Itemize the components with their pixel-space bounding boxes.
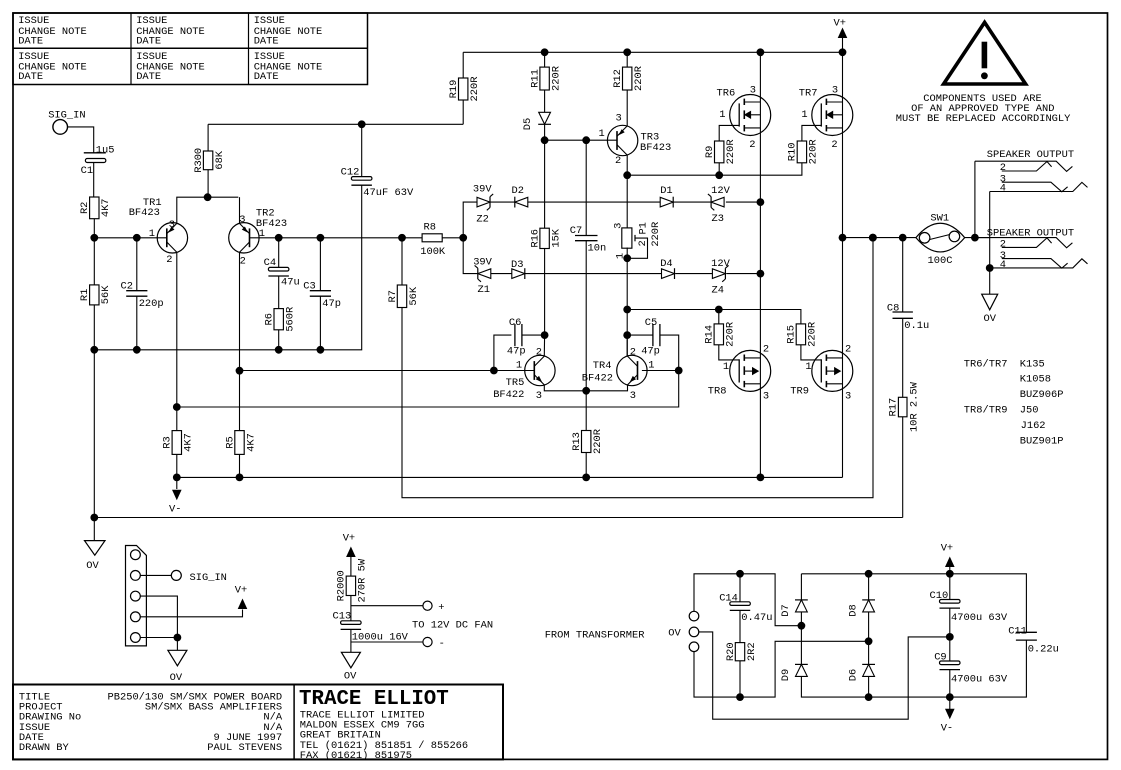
transistor TR5 — [493, 346, 555, 402]
potentiometer P1 — [612, 222, 662, 259]
svg-text:2: 2 — [1000, 162, 1006, 174]
wire — [842, 52, 844, 477]
junction — [236, 474, 244, 482]
wire — [949, 608, 951, 661]
junction — [623, 48, 631, 56]
wire — [965, 237, 990, 239]
svg-text:47p: 47p — [322, 298, 341, 310]
capacitor C1 — [81, 144, 115, 177]
wire R15 gate — [801, 345, 821, 360]
node SIG_IN — [48, 110, 85, 135]
svg-text:4K7: 4K7 — [245, 433, 257, 452]
svg-text:DATE: DATE — [136, 36, 161, 48]
svg-text:D9: D9 — [780, 669, 792, 681]
junction — [946, 693, 954, 701]
svg-text:D8: D8 — [847, 604, 859, 616]
wire — [585, 241, 587, 391]
speaker jack lower — [975, 228, 1088, 272]
svg-text:1: 1 — [648, 360, 654, 372]
svg-text:47uF 63V: 47uF 63V — [363, 187, 414, 199]
svg-text:C11: C11 — [1008, 625, 1027, 637]
diode D1 — [660, 185, 673, 207]
wire — [626, 155, 628, 228]
svg-text:270R 5W: 270R 5W — [357, 558, 369, 602]
transistor TR2 — [229, 208, 287, 268]
wire TR5 collector — [543, 335, 545, 356]
wire — [718, 310, 720, 324]
wire — [726, 273, 760, 275]
wire — [868, 612, 870, 641]
junction — [839, 48, 847, 56]
node SIG_IN stub — [171, 570, 227, 583]
wire — [950, 640, 1027, 697]
wire C6 branch — [494, 335, 512, 370]
svg-text:Z4: Z4 — [712, 284, 724, 296]
mosfet TR9 — [790, 344, 853, 403]
svg-text:SIG_IN: SIG_IN — [48, 110, 85, 122]
svg-text:47p: 47p — [641, 345, 660, 357]
svg-text:220R: 220R — [808, 139, 820, 164]
svg-text:V+: V+ — [941, 543, 953, 555]
supply V+ top — [834, 18, 848, 53]
wire row1 — [528, 201, 660, 203]
svg-text:68K: 68K — [214, 150, 226, 169]
junction — [204, 193, 212, 201]
supply V+ fan — [343, 533, 356, 576]
wire — [140, 574, 171, 576]
wire — [278, 238, 280, 268]
svg-text:Z1: Z1 — [478, 284, 490, 296]
wire zener node down — [463, 238, 478, 274]
issue/change-note table — [13, 13, 368, 85]
svg-text:BF423: BF423 — [640, 142, 671, 154]
resistor R13 — [571, 429, 604, 454]
mosfet TR8 — [708, 344, 771, 403]
svg-text:2R2: 2R2 — [746, 642, 758, 661]
wire — [176, 454, 178, 477]
wire 0V long rail — [94, 517, 902, 519]
svg-text:12V: 12V — [711, 258, 730, 270]
svg-text:BF423: BF423 — [129, 207, 160, 219]
transformer terminals — [668, 611, 699, 651]
junction — [736, 570, 744, 578]
wire — [93, 219, 95, 285]
junction — [715, 171, 723, 179]
wire — [350, 596, 352, 621]
svg-text:2: 2 — [536, 346, 542, 358]
wire — [522, 334, 545, 336]
junction — [133, 346, 141, 354]
svg-text:DRAWN BY: DRAWN BY — [19, 742, 70, 754]
svg-text:-: - — [439, 638, 445, 650]
svg-text:47p: 47p — [507, 345, 526, 357]
wire V+ top rail — [463, 51, 842, 53]
junction — [582, 387, 590, 395]
wire — [442, 237, 463, 239]
capacitor C12 — [341, 166, 414, 199]
wire output line — [843, 237, 916, 239]
node fan - — [423, 637, 445, 650]
svg-text:220R: 220R — [725, 139, 737, 164]
svg-text:SW1: SW1 — [930, 212, 949, 224]
svg-text:3: 3 — [750, 85, 756, 97]
wire — [462, 52, 464, 78]
svg-text:OV: OV — [984, 313, 997, 325]
connector PL1 — [126, 546, 147, 646]
wire — [278, 330, 280, 350]
wire — [319, 296, 321, 350]
svg-text:R2000: R2000 — [336, 570, 348, 601]
junction — [865, 693, 873, 701]
wire — [868, 574, 870, 600]
wire TR5 emitter — [544, 385, 586, 391]
junction — [90, 346, 98, 354]
svg-text:1: 1 — [723, 361, 729, 373]
svg-text:3: 3 — [239, 214, 245, 226]
wire — [626, 248, 628, 356]
wire — [759, 52, 761, 477]
svg-text:1u5: 1u5 — [96, 144, 115, 156]
svg-text:R12: R12 — [612, 69, 624, 88]
svg-text:BF422: BF422 — [582, 373, 613, 385]
ground 0V connector — [168, 650, 187, 684]
svg-text:2: 2 — [749, 139, 755, 151]
svg-text:3: 3 — [832, 85, 838, 97]
wire zener node up — [463, 202, 477, 238]
svg-text:2: 2 — [240, 256, 246, 268]
svg-text:TR4: TR4 — [593, 360, 612, 372]
capacitor C9 — [934, 652, 1008, 686]
wire — [660, 335, 679, 370]
junction — [358, 120, 366, 128]
svg-text:J50: J50 — [1020, 405, 1039, 417]
wire — [800, 612, 802, 626]
node fan + — [423, 601, 445, 614]
svg-text:C2: C2 — [121, 280, 133, 292]
svg-text:2: 2 — [630, 346, 636, 358]
wire — [350, 629, 352, 652]
junction — [675, 367, 683, 375]
svg-text:TR7: TR7 — [799, 87, 818, 99]
svg-text:OV: OV — [170, 672, 183, 684]
resistor R6 — [264, 307, 297, 332]
svg-text:0.1u: 0.1u — [904, 320, 929, 332]
svg-text:12V: 12V — [711, 185, 730, 197]
svg-text:1: 1 — [719, 109, 725, 121]
wire — [140, 610, 242, 617]
capacitor C5 — [641, 317, 660, 357]
svg-text:V+: V+ — [834, 18, 846, 30]
svg-text:220R: 220R — [469, 77, 481, 102]
svg-text:J162: J162 — [1021, 420, 1046, 432]
svg-text:V+: V+ — [343, 533, 355, 545]
wire — [402, 238, 873, 498]
svg-text:4K7: 4K7 — [100, 198, 112, 217]
wire — [949, 574, 951, 600]
junction — [899, 234, 907, 242]
svg-text:TR9: TR9 — [790, 386, 809, 398]
junction — [459, 234, 467, 242]
supply V- psu — [941, 697, 955, 734]
junction — [582, 136, 590, 144]
zener Z3 — [708, 185, 731, 225]
wire R10 gate — [802, 125, 821, 141]
svg-text:V+: V+ — [235, 585, 247, 597]
svg-text:2: 2 — [1000, 239, 1006, 251]
wire — [176, 638, 178, 651]
svg-text:D4: D4 — [660, 258, 672, 270]
wire — [140, 596, 177, 637]
svg-text:220R: 220R — [807, 322, 819, 347]
junction — [715, 306, 723, 314]
capacitor C4 — [264, 257, 300, 289]
wire TR4 base — [642, 370, 679, 372]
svg-text:PAUL STEVENS: PAUL STEVENS — [207, 742, 282, 754]
transistor TR4 — [582, 346, 655, 402]
svg-text:R13: R13 — [571, 432, 583, 451]
zener Z1 — [473, 257, 492, 296]
capacitor C13 — [333, 610, 409, 643]
junction — [623, 171, 631, 179]
svg-text:2: 2 — [615, 155, 621, 167]
junction — [757, 270, 765, 278]
svg-text:220R: 220R — [550, 66, 562, 91]
svg-text:3: 3 — [612, 223, 624, 229]
diode D7 — [780, 600, 808, 617]
wire R300 column — [207, 124, 209, 151]
junction — [971, 234, 979, 242]
svg-text:DATE: DATE — [254, 36, 279, 48]
svg-text:C1: C1 — [81, 165, 93, 177]
svg-text:DATE: DATE — [18, 71, 43, 83]
resistor R300 — [193, 148, 226, 173]
svg-text:56K: 56K — [408, 286, 420, 305]
svg-text:C13: C13 — [333, 610, 352, 622]
wire TR3 base — [545, 139, 617, 141]
svg-text:D2: D2 — [512, 185, 524, 197]
wire — [949, 670, 951, 698]
svg-text:TR8/TR9: TR8/TR9 — [964, 405, 1008, 417]
wire — [140, 637, 177, 639]
device type list — [964, 358, 1064, 447]
svg-text:MUST BE REPLACED ACCORDINGLY: MUST BE REPLACED ACCORDINGLY — [896, 113, 1071, 125]
svg-text:SIG_IN: SIG_IN — [190, 572, 227, 584]
junction — [174, 634, 182, 642]
supply V+ psu — [941, 543, 955, 574]
svg-text:D3: D3 — [511, 259, 523, 271]
svg-text:4700u 63V: 4700u 63V — [951, 673, 1008, 685]
svg-text:4K7: 4K7 — [183, 433, 195, 452]
svg-text:1: 1 — [516, 360, 522, 372]
wire — [673, 201, 711, 203]
svg-text:+: + — [438, 602, 444, 614]
junction — [275, 346, 283, 354]
svg-text:4: 4 — [1000, 183, 1006, 195]
svg-text:R7: R7 — [387, 290, 399, 302]
svg-text:R2: R2 — [79, 202, 91, 214]
junction — [986, 264, 994, 272]
wire — [544, 90, 546, 112]
wire — [726, 201, 761, 203]
junction — [541, 331, 549, 339]
junction — [736, 693, 744, 701]
svg-text:560R: 560R — [285, 307, 297, 332]
capacitor C3 — [303, 280, 341, 310]
thermal switch SW1 — [916, 212, 965, 267]
junction output node — [839, 234, 847, 242]
junction — [236, 367, 244, 375]
wire TR5 base — [240, 370, 535, 372]
resistor R5 — [224, 431, 257, 455]
svg-text:R6: R6 — [264, 313, 276, 325]
svg-text:R9: R9 — [704, 146, 716, 158]
wire fan plus — [351, 605, 423, 607]
wire — [989, 192, 991, 295]
junction — [865, 570, 873, 578]
wire R19 link — [208, 123, 463, 125]
junction — [317, 346, 325, 354]
zener Z4 — [711, 258, 730, 297]
wire — [868, 676, 870, 697]
junction — [90, 514, 98, 522]
resistor R7 — [387, 285, 420, 308]
svg-text:100C: 100C — [928, 255, 953, 267]
junction — [623, 254, 631, 262]
diode D9 — [780, 664, 808, 681]
svg-text:C5: C5 — [645, 317, 657, 329]
svg-text:DATE: DATE — [254, 71, 279, 83]
junction — [946, 633, 954, 641]
diode D4 — [660, 258, 674, 279]
junction — [173, 403, 181, 411]
wire lower gate rail — [627, 310, 801, 324]
wire — [491, 201, 515, 203]
svg-text:R14: R14 — [704, 325, 716, 344]
svg-text:220p: 220p — [139, 298, 164, 310]
wire — [544, 52, 546, 67]
resistor R19 — [448, 77, 481, 102]
wire — [760, 476, 842, 478]
svg-text:C6: C6 — [509, 317, 521, 329]
wire — [718, 163, 720, 175]
svg-text:1: 1 — [801, 109, 807, 121]
svg-text:220R: 220R — [633, 66, 645, 91]
svg-text:C9: C9 — [934, 652, 946, 664]
diode D2 — [512, 185, 528, 208]
svg-text:D5: D5 — [522, 118, 534, 130]
svg-text:39V: 39V — [473, 184, 492, 196]
resistor R15 — [786, 322, 819, 347]
ground 0V — [85, 541, 106, 572]
svg-text:P1: P1 — [638, 222, 650, 234]
svg-text:FAX (01621) 851975: FAX (01621) 851975 — [300, 750, 412, 762]
wire C8 column — [902, 238, 904, 312]
svg-text:TR8: TR8 — [708, 386, 727, 398]
junction — [946, 570, 954, 578]
svg-text:1: 1 — [805, 361, 811, 373]
junction — [541, 48, 549, 56]
capacitor C6 — [507, 317, 526, 357]
capacitor C7 — [570, 225, 606, 255]
svg-text:D6: D6 — [847, 669, 859, 681]
supply V- — [169, 477, 182, 515]
transistor TR3 — [599, 112, 672, 167]
resistor R9 — [704, 139, 737, 164]
svg-text:C14: C14 — [719, 593, 738, 605]
svg-text:BUZ901P: BUZ901P — [1020, 435, 1064, 447]
svg-text:R15: R15 — [786, 325, 798, 344]
junction — [317, 234, 325, 242]
wire — [626, 90, 628, 126]
svg-text:100K: 100K — [420, 246, 446, 258]
wire bridge top rail — [801, 573, 949, 575]
svg-text:220R: 220R — [592, 429, 604, 454]
svg-text:3: 3 — [845, 390, 851, 402]
resistor R8 — [420, 222, 446, 259]
wire — [207, 170, 209, 198]
capacitor C10 — [930, 590, 1008, 624]
junction — [90, 234, 98, 242]
wire — [278, 276, 280, 309]
junction — [757, 48, 765, 56]
wire — [739, 661, 741, 697]
wire — [868, 641, 870, 664]
wire — [319, 238, 321, 291]
svg-text:V-: V- — [941, 723, 953, 735]
wire — [675, 273, 712, 275]
svg-text:R1: R1 — [79, 289, 91, 301]
svg-text:FROM TRANSFORMER: FROM TRANSFORMER — [545, 629, 645, 641]
title block — [13, 685, 503, 762]
svg-text:OV: OV — [668, 628, 681, 640]
svg-text:OV: OV — [86, 560, 99, 572]
junction — [398, 234, 406, 242]
svg-text:39V: 39V — [473, 257, 492, 269]
svg-text:3: 3 — [763, 390, 769, 402]
wire — [694, 641, 869, 697]
wire — [739, 610, 741, 642]
svg-text:4: 4 — [1000, 259, 1006, 271]
svg-text:2: 2 — [831, 139, 837, 151]
junction — [490, 367, 498, 375]
resistor R12 — [612, 66, 645, 91]
svg-text:C7: C7 — [570, 225, 582, 237]
svg-text:15K: 15K — [550, 228, 562, 247]
mosfet TR7 — [799, 85, 853, 152]
junction — [869, 234, 877, 242]
wire C7 column — [585, 140, 587, 235]
svg-text:D7: D7 — [780, 604, 792, 616]
wire — [491, 273, 512, 275]
wire — [974, 161, 976, 237]
mosfet TR6 — [717, 85, 771, 152]
diode D6 — [847, 664, 875, 681]
svg-text:V-: V- — [169, 504, 181, 516]
svg-text:C4: C4 — [264, 257, 276, 269]
wire — [93, 518, 95, 541]
resistor R17 — [888, 381, 921, 432]
svg-text:0.47u: 0.47u — [741, 612, 772, 624]
warning triangle note — [896, 22, 1071, 125]
junction — [757, 198, 765, 206]
wire — [544, 124, 546, 228]
svg-text:TR6/TR7: TR6/TR7 — [964, 358, 1008, 370]
capacitor C14 — [719, 593, 772, 625]
wire — [544, 249, 546, 336]
wire — [93, 350, 95, 518]
svg-text:TO 12V DC FAN: TO 12V DC FAN — [412, 619, 493, 631]
wire gate bias rail — [627, 163, 802, 175]
